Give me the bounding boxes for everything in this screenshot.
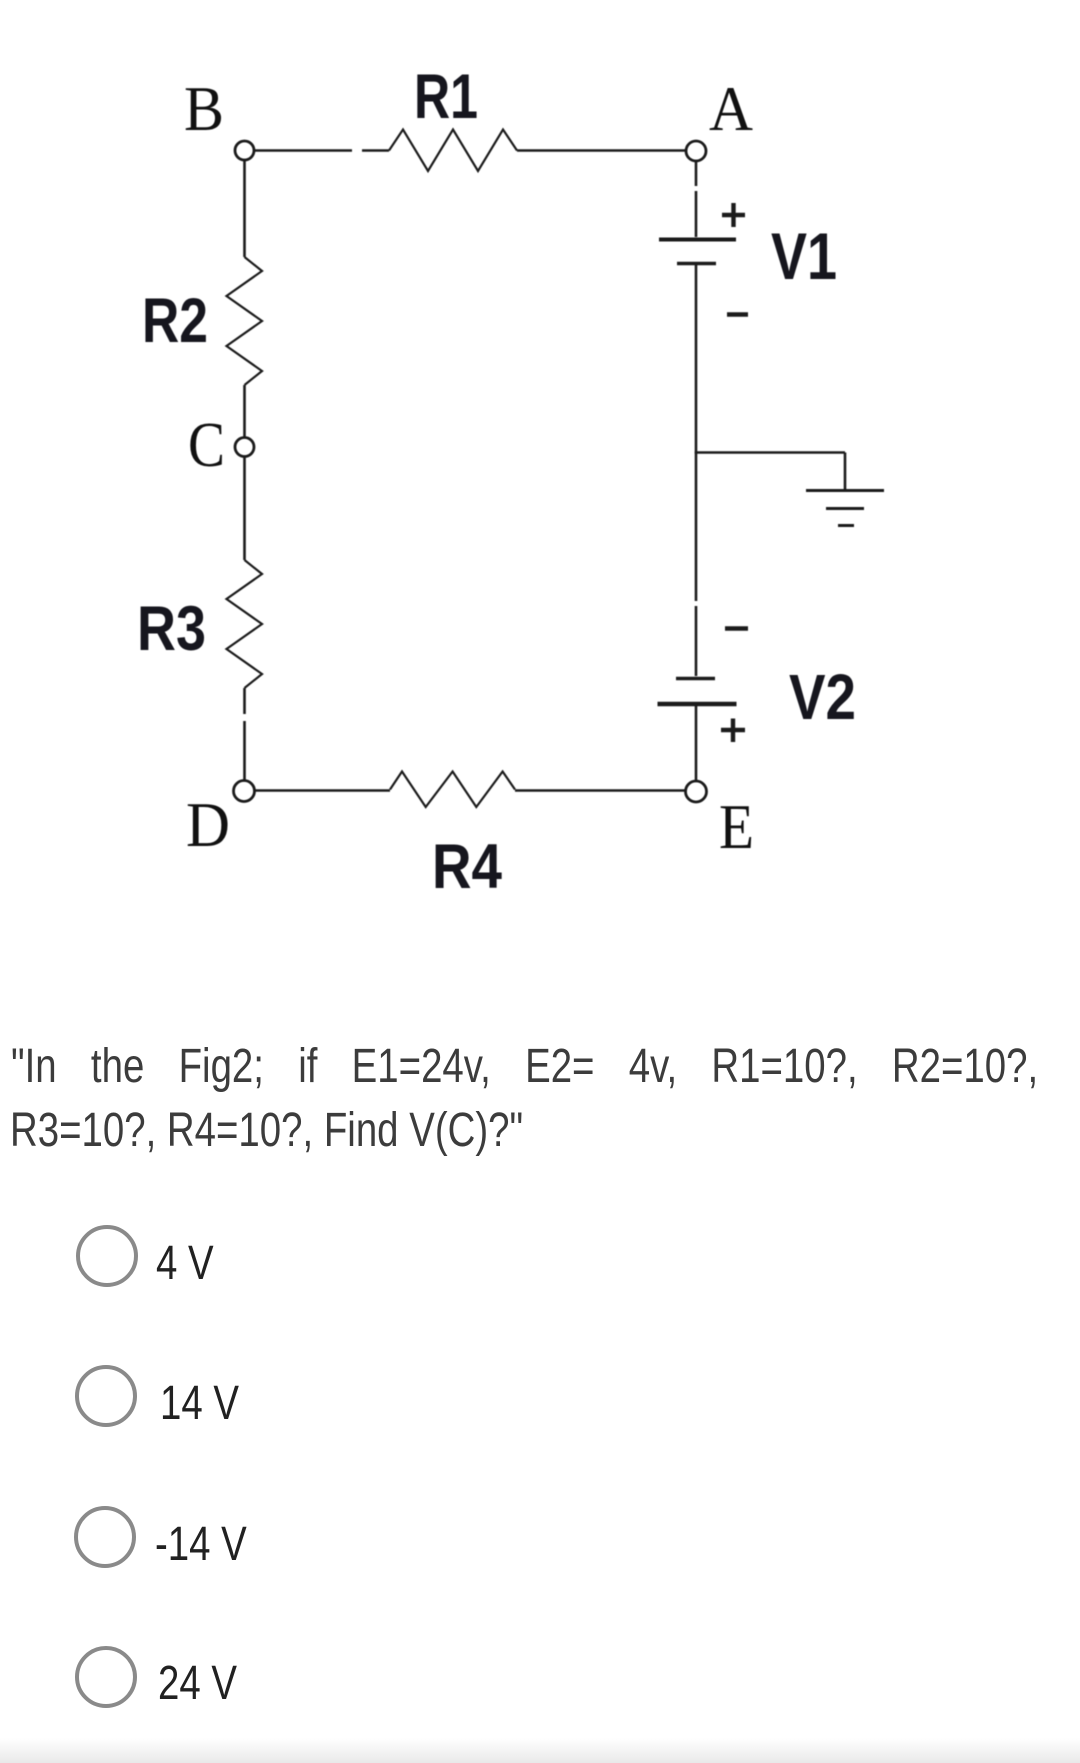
- resistor R3: [227, 560, 263, 688]
- svg-text:V2: V2: [789, 661, 856, 733]
- wire B to R1: [253, 149, 389, 152]
- ground: [806, 491, 884, 526]
- option 3 text: [155, 1521, 247, 1569]
- bottom gradient: [0, 1738, 1080, 1763]
- option 1 radio: [76, 1225, 138, 1287]
- option 2 text: [160, 1380, 239, 1428]
- svg-text:A: A: [709, 74, 753, 144]
- wire R3 to D: [243, 688, 246, 780]
- option 3 radio: [74, 1506, 136, 1568]
- wire E to R4: [515, 789, 685, 792]
- node C: [235, 438, 254, 457]
- resistor R4: [390, 772, 515, 808]
- node B: [235, 141, 254, 160]
- node E: [686, 781, 707, 802]
- resistor R2: [227, 257, 263, 385]
- V1 plus sign: [722, 203, 745, 227]
- question text line 1: [11, 1043, 1038, 1091]
- node D: [234, 781, 255, 802]
- svg-text:V1: V1: [771, 219, 837, 293]
- battery V2: [658, 679, 737, 705]
- option 2 radio: [75, 1365, 137, 1427]
- wire R4 to D: [254, 789, 391, 792]
- wire A to V1: [695, 162, 698, 237]
- wire R1 to A: [517, 149, 685, 152]
- V2 plus sign: [721, 719, 745, 743]
- wire junction to ground: [695, 453, 845, 490]
- battery V1: [659, 240, 736, 264]
- svg-text:R2: R2: [142, 286, 208, 356]
- node A: [686, 141, 706, 161]
- svg-text:R1: R1: [414, 62, 478, 132]
- svg-text:D: D: [186, 790, 230, 860]
- wire B down to R2: [243, 161, 246, 258]
- resistor R1: [389, 130, 517, 172]
- option 4 text: [158, 1660, 237, 1708]
- svg-text:R4: R4: [432, 832, 502, 902]
- option 4 radio: [75, 1646, 137, 1708]
- V2 minus sign: [725, 626, 748, 630]
- svg-text:B: B: [184, 74, 224, 144]
- wire C to R3: [243, 457, 246, 560]
- circuit figure: [0, 0, 1080, 960]
- wire R2 to C: [243, 385, 246, 437]
- svg-text:E: E: [719, 792, 754, 862]
- V1 minus sign: [727, 312, 748, 316]
- wire V1 down to V2: [695, 265, 698, 676]
- option 1 text: [156, 1240, 214, 1288]
- svg-text:R3: R3: [137, 594, 206, 664]
- svg-text:C: C: [188, 410, 225, 480]
- question text line 2: [10, 1107, 523, 1155]
- wire V2 to E: [695, 706, 698, 781]
